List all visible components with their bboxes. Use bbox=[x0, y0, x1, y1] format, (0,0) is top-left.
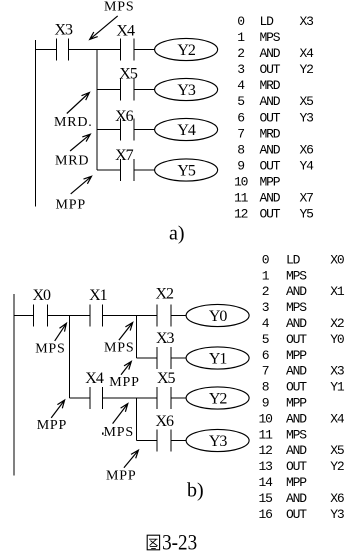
svg-text:MPS: MPS bbox=[35, 341, 65, 356]
coil Y4 bbox=[155, 118, 218, 140]
label X1 bbox=[89, 287, 108, 304]
wire X0 to X1 through first node bbox=[48, 315, 90, 317]
contact X6 (b) bbox=[157, 430, 171, 452]
svg-text:X0: X0 bbox=[33, 287, 52, 304]
contact X1 bbox=[90, 305, 103, 327]
svg-text:5OUTY0: 5OUTY0 bbox=[262, 332, 344, 347]
label MPS first (b) bbox=[35, 341, 65, 356]
svg-text:9MPP: 9MPP bbox=[262, 396, 308, 411]
svg-text:3-23: 3-23 bbox=[162, 531, 197, 552]
wire X3 to X4 through node bbox=[69, 49, 121, 51]
svg-text:Y0: Y0 bbox=[209, 308, 228, 325]
contact X2 bbox=[157, 305, 171, 327]
arrow MPP bottom to node (b) bbox=[124, 450, 138, 468]
svg-text:MPP: MPP bbox=[106, 469, 136, 484]
svg-text:MRD: MRD bbox=[55, 154, 89, 169]
third branch stem (diagram b) bbox=[135, 398, 137, 441]
svg-text:9OUTY4: 9OUTY4 bbox=[237, 159, 314, 174]
svg-text:MPP: MPP bbox=[109, 375, 139, 390]
svg-text:b): b) bbox=[187, 480, 204, 502]
svg-text:4ANDX2: 4ANDX2 bbox=[262, 316, 344, 331]
svg-text:Y2: Y2 bbox=[209, 391, 228, 408]
svg-text:4MRD: 4MRD bbox=[237, 78, 281, 93]
svg-text:MRD.: MRD. bbox=[54, 115, 93, 130]
arrow MRD first to node (a) bbox=[67, 93, 90, 114]
coil Y3 (b) bbox=[186, 429, 249, 451]
wire node to contact X6 bbox=[97, 129, 121, 131]
svg-text:X5: X5 bbox=[157, 370, 176, 387]
wire X6 to coil Y3 bbox=[171, 440, 187, 442]
label MPS second (b) bbox=[104, 340, 134, 355]
left power rail (diagram a) bbox=[34, 40, 36, 206]
label MPS third (b) bbox=[104, 425, 134, 440]
label X0 bbox=[33, 287, 52, 304]
coil Y3 bbox=[155, 78, 218, 100]
wire X5 to coil Y2 bbox=[171, 397, 187, 399]
first branch stem (diagram b) bbox=[69, 316, 71, 399]
svg-text:0LDX0: 0LDX0 bbox=[262, 252, 344, 267]
contact X0 bbox=[33, 305, 47, 327]
label MRD second (a) bbox=[55, 154, 89, 169]
svg-text:X4: X4 bbox=[85, 370, 104, 387]
wire X4 to coil Y2 bbox=[134, 49, 155, 51]
wire node to contact X7 bbox=[97, 169, 121, 171]
svg-text:2ANDX4: 2ANDX4 bbox=[237, 46, 314, 61]
caption figure number 3-23 bbox=[162, 531, 197, 552]
svg-text:X5: X5 bbox=[119, 66, 138, 83]
svg-text:8OUTY1: 8OUTY1 bbox=[262, 380, 345, 395]
label X6 bbox=[115, 108, 134, 125]
arrow MPP left to node (b) bbox=[51, 400, 64, 418]
svg-text:X4: X4 bbox=[116, 23, 135, 40]
label X3 bbox=[55, 22, 74, 39]
label MPP upper middle (b) bbox=[109, 375, 139, 390]
svg-text:1MPS: 1MPS bbox=[237, 30, 281, 45]
wire X4 to X5 through third node bbox=[103, 397, 157, 399]
svg-text:10MPP: 10MPP bbox=[234, 175, 281, 190]
svg-text:2ANDX1: 2ANDX1 bbox=[262, 284, 345, 299]
svg-text:Y1: Y1 bbox=[209, 351, 228, 368]
svg-text:X3: X3 bbox=[156, 330, 175, 347]
speck before MPS third bbox=[102, 433, 104, 435]
caption a) bbox=[169, 223, 185, 245]
svg-text:11ANDX7: 11ANDX7 bbox=[234, 191, 313, 206]
instruction list for diagram a bbox=[234, 14, 314, 222]
svg-text:X7: X7 bbox=[115, 147, 134, 164]
svg-text:15ANDX6: 15ANDX6 bbox=[259, 491, 344, 506]
svg-text:5ANDX5: 5ANDX5 bbox=[237, 94, 313, 109]
arrow MPS third to node (b) bbox=[113, 404, 128, 424]
wire X3 to coil Y1 bbox=[171, 357, 187, 359]
svg-text:a): a) bbox=[169, 223, 185, 245]
svg-text:6MPP: 6MPP bbox=[262, 348, 308, 363]
hanzi TU (figure) glyph of caption bbox=[147, 535, 159, 550]
svg-text:X2: X2 bbox=[156, 286, 175, 303]
wire X5 to coil Y3 bbox=[134, 89, 155, 91]
svg-text:12ANDX5: 12ANDX5 bbox=[259, 443, 344, 458]
wire X7 to coil Y5 bbox=[134, 169, 155, 171]
svg-text:X6: X6 bbox=[115, 108, 134, 125]
svg-text:3OUTY2: 3OUTY2 bbox=[237, 62, 313, 77]
label X6 (b) bbox=[156, 413, 175, 430]
contact X4 (b) bbox=[90, 387, 103, 409]
label MPS (a) bbox=[104, 0, 134, 15]
branch stem (diagram a) bbox=[96, 50, 98, 171]
arrow MPS second to node (b) bbox=[119, 323, 133, 341]
wire first node to contact X4 bbox=[70, 397, 90, 399]
contact X3 bbox=[57, 39, 69, 61]
wire third node to contact X6 bbox=[136, 440, 157, 442]
label MRD first (a) bbox=[54, 115, 93, 130]
svg-text:MPS: MPS bbox=[104, 340, 134, 355]
label MPP (a) bbox=[56, 198, 86, 213]
label MPP bottom (b) bbox=[106, 469, 136, 484]
svg-text:7MRD: 7MRD bbox=[237, 126, 281, 141]
label X4 (b) bbox=[85, 370, 104, 387]
svg-text:MPP: MPP bbox=[37, 418, 67, 433]
arrow MPP to node (a) bbox=[71, 176, 92, 194]
svg-text:1MPS: 1MPS bbox=[262, 268, 308, 283]
svg-text:MPS: MPS bbox=[104, 0, 134, 15]
svg-text:13OUTY2: 13OUTY2 bbox=[259, 459, 344, 474]
arrow MPP upper middle to node (b) bbox=[121, 362, 131, 375]
svg-text:16OUTY3: 16OUTY3 bbox=[259, 507, 344, 522]
svg-text:Y5: Y5 bbox=[177, 163, 196, 180]
contact X3 (b) bbox=[157, 347, 171, 369]
arrow MRD second to node (a) bbox=[70, 134, 90, 151]
label X3 (b) bbox=[156, 330, 175, 347]
caption b) bbox=[187, 480, 204, 502]
coil Y0 bbox=[186, 304, 249, 326]
label X4 bbox=[116, 23, 135, 40]
wire X6 to coil Y4 bbox=[134, 129, 155, 131]
svg-text:Y4: Y4 bbox=[177, 122, 196, 139]
svg-text:12OUTY5: 12OUTY5 bbox=[234, 207, 313, 222]
svg-text:MPS: MPS bbox=[104, 425, 134, 440]
svg-text:X1: X1 bbox=[89, 287, 108, 304]
coil Y2 bbox=[155, 38, 218, 60]
wire second node to contact X3 bbox=[136, 357, 157, 359]
label X5 bbox=[119, 66, 138, 83]
left power rail (diagram b) bbox=[13, 294, 15, 475]
label X5 (b) bbox=[157, 370, 176, 387]
arrow MPS to node (a) bbox=[90, 16, 118, 40]
wire node to contact X5 bbox=[97, 89, 121, 91]
svg-text:Y3: Y3 bbox=[177, 82, 196, 99]
svg-text:14MPP: 14MPP bbox=[259, 475, 308, 490]
coil Y5 bbox=[155, 159, 218, 181]
contact X5 bbox=[121, 79, 134, 101]
wire rail to contact X3 bbox=[35, 49, 56, 51]
label X7 bbox=[115, 147, 134, 164]
contact X5 (b) bbox=[157, 387, 171, 409]
svg-text:10ANDX4: 10ANDX4 bbox=[259, 411, 345, 426]
label X2 bbox=[156, 286, 175, 303]
svg-text:3MPS: 3MPS bbox=[262, 300, 308, 315]
svg-text:0LDX3: 0LDX3 bbox=[237, 14, 313, 29]
arrow MPS first to node (b) bbox=[55, 323, 67, 341]
wire rail to contact X0 bbox=[14, 315, 33, 317]
wire X1 to X2 through second node bbox=[103, 315, 157, 317]
contact X4 bbox=[121, 39, 134, 61]
svg-text:X6: X6 bbox=[156, 413, 175, 430]
svg-text:Y2: Y2 bbox=[177, 42, 196, 59]
wire X2 to coil Y0 bbox=[171, 315, 187, 317]
svg-text:Y3: Y3 bbox=[209, 433, 228, 450]
instruction list for diagram b bbox=[259, 252, 345, 521]
svg-text:X3: X3 bbox=[55, 22, 74, 39]
svg-text:8ANDX6: 8ANDX6 bbox=[237, 143, 313, 158]
second branch stem (diagram b) bbox=[135, 316, 137, 359]
coil Y2 (b) bbox=[186, 387, 249, 409]
coil Y1 bbox=[186, 347, 249, 369]
svg-text:11MPS: 11MPS bbox=[259, 427, 308, 442]
contact X6 bbox=[121, 119, 134, 141]
contact X7 bbox=[121, 159, 134, 181]
svg-text:MPP: MPP bbox=[56, 198, 86, 213]
svg-text:6OUTY3: 6OUTY3 bbox=[237, 110, 313, 125]
label MPP left (b) bbox=[37, 418, 67, 433]
svg-text:7ANDX3: 7ANDX3 bbox=[262, 364, 344, 379]
